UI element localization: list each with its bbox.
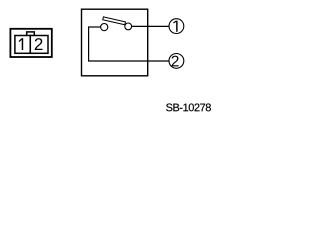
terminal circle 1 <box>169 19 184 34</box>
switch contact right circle <box>125 23 132 30</box>
terminal label 2 <box>172 56 179 67</box>
connector locking tab <box>27 32 35 36</box>
pin number 1 <box>19 38 23 50</box>
pin number 2 <box>35 38 43 50</box>
switch contact left circle <box>101 24 108 31</box>
connector body outer rectangle <box>10 29 51 57</box>
terminal label 1 <box>173 21 177 32</box>
figure number SB-10278 <box>166 104 211 112</box>
wire from corner to left contact <box>89 26 101 28</box>
wire vertical segment <box>88 26 90 61</box>
terminal circle 2 <box>169 54 184 69</box>
connector cavity pin 2 <box>30 36 48 54</box>
connector cavity pin 1 <box>15 36 30 54</box>
wire bottom run to terminal 2 <box>88 60 169 62</box>
wire from right contact to terminal 1 <box>132 25 170 27</box>
switch unit box <box>82 9 148 76</box>
switch lever blade <box>103 17 126 25</box>
